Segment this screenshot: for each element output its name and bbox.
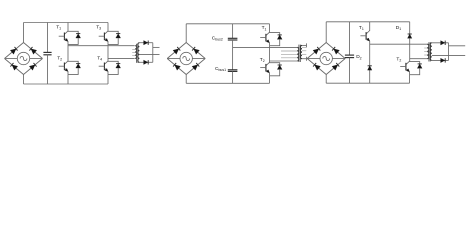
wire circuit3 bottom rail	[326, 82, 409, 84]
wire T1c3 collector drop	[369, 22, 371, 31]
wire node A1 to primary top	[68, 45, 135, 47]
winding return turns TR3 primary	[424, 48, 427, 55]
wire center tap output circuit3	[432, 54, 465, 56]
wire secondary2 bottom lead	[302, 58, 307, 60]
wire T3 collector drop	[107, 23, 109, 32]
wire cap3 branch lower	[349, 58, 351, 84]
bridge diode B3 upper-right	[332, 47, 339, 54]
wire Cbus1 branch lower	[232, 71, 234, 83]
wire leg2 mid	[269, 46, 271, 63]
wire bridge1 top stub	[23, 23, 25, 43]
wire T2c2 emitter drop	[269, 76, 271, 84]
wire circuit2 bottom rail	[186, 82, 269, 84]
wire bridge1 bottom stub	[23, 75, 25, 85]
capacitor Cbus1	[228, 70, 238, 72]
wire cap3 branch upper	[349, 22, 351, 55]
transistor T2	[59, 61, 68, 75]
antiparallel diode of T2 (circuit2)	[270, 63, 283, 76]
wire T2 emitter drop	[67, 74, 69, 84]
antiparallel diode of T4	[108, 61, 121, 74]
diode bridge B1 diamond	[5, 43, 43, 75]
bridge diode B1 lower-right	[29, 63, 36, 70]
AC source B3	[307, 52, 345, 64]
capacitor Cbus circuit3	[345, 55, 354, 58]
bridge diode B2 lower-left	[173, 63, 180, 70]
transistor T1	[59, 31, 68, 45]
wire secondary1 top line	[139, 42, 152, 44]
wire node B3 line	[410, 58, 428, 60]
transformer winding TR3 primary	[427, 44, 429, 59]
wire T4 emitter drop	[107, 74, 109, 84]
diode D2	[368, 66, 372, 70]
transformer winding TR1 primary	[135, 46, 137, 59]
wire output plus circuit3	[449, 45, 466, 47]
diode bridge B3 diamond	[307, 43, 345, 75]
wire circuit1 top rail	[24, 22, 109, 24]
transistor T2 (circuit3)	[400, 61, 409, 74]
wire D1 branch lower	[409, 38, 411, 61]
bridge diode B3 lower-right	[332, 63, 339, 70]
wire bridge2 bottom stub	[185, 75, 187, 84]
AC source B2	[167, 52, 205, 64]
transistor T3	[99, 31, 108, 45]
wire cap1 branch lower	[47, 55, 49, 84]
bridge diode B2 upper-right	[192, 47, 199, 54]
wire secondary2 top lead	[302, 44, 307, 46]
antiparallel diode of T2 (circuit3)	[410, 62, 423, 75]
winding return turns TR2 primary	[281, 51, 297, 58]
transistor T4	[99, 61, 108, 75]
antiparallel diode of T3	[108, 31, 121, 44]
wire secondary1 bottom line	[139, 61, 152, 63]
diode D1	[408, 34, 412, 38]
transistor T1 (circuit3)	[360, 31, 369, 45]
wire center tap output circuit1	[139, 54, 159, 56]
wire circuit1 bottom rail	[24, 83, 109, 85]
capacitor Cbus circuit1	[43, 52, 51, 54]
antiparallel diode of T1	[68, 31, 81, 44]
antiparallel diode of T1 (circuit2)	[270, 33, 283, 46]
wire circuit3 top rail	[326, 21, 410, 23]
wire secondary3 bottom line	[432, 59, 449, 61]
bridge diode B2 lower-right	[192, 63, 199, 70]
transformer winding TR2 secondary	[300, 45, 302, 58]
wire T2c3 emitter drop	[409, 75, 411, 84]
wire cap midpoint to primary top	[233, 46, 297, 48]
wire cap midpoint branch	[232, 40, 234, 70]
wire left leg mid	[67, 44, 69, 61]
output rectifier diode circuit3 top	[441, 41, 446, 45]
transformer winding TR1 secondary	[138, 43, 140, 63]
transistor T1 (circuit2)	[260, 32, 269, 46]
winding return turns TR1 primary	[132, 50, 135, 56]
transformer TR1 core	[136, 44, 138, 63]
wire D1 branch upper	[409, 22, 411, 34]
wire output bus circuit3	[448, 43, 450, 61]
wire bridge3 top stub	[325, 22, 327, 43]
wire circuit2 top rail	[186, 23, 269, 25]
wire D2 branch	[369, 44, 371, 83]
antiparallel diode of T2	[68, 61, 81, 74]
diode bridge B2 diamond	[167, 43, 205, 75]
capacitor Cbus2	[228, 38, 238, 40]
transformer winding TR3 secondary	[430, 43, 432, 61]
bridge diode B2 upper-left	[173, 47, 180, 54]
output rectifier diode circuit3 bottom	[441, 58, 446, 62]
transistor T2 (circuit2)	[260, 62, 269, 76]
wire output bus circuit1	[152, 43, 154, 63]
wire Cbus2 branch upper	[232, 24, 234, 39]
wire bridge2 top stub	[185, 24, 187, 43]
wire node A3 line	[370, 43, 428, 45]
output rectifier diode circuit1 top	[144, 41, 149, 45]
bridge diode B1 lower-left	[10, 63, 17, 70]
wire output plus circuit1	[153, 46, 160, 48]
winding return turns TR2 secondary	[302, 47, 306, 54]
bridge diode B1 upper-right	[29, 47, 36, 54]
output rectifier diode circuit1 bottom	[144, 60, 149, 64]
wire bridge3 bottom stub	[325, 75, 327, 84]
wire right leg mid	[107, 44, 109, 61]
bridge diode B3 lower-left	[313, 63, 320, 70]
bridge diode B1 upper-left	[10, 47, 17, 54]
transformer TR3 core	[428, 42, 430, 61]
wire T1c2 collector drop	[269, 24, 271, 33]
wire leg midpoint to primary bottom	[270, 60, 298, 62]
wire secondary3 top line	[432, 42, 449, 44]
wire T1 collector drop	[67, 23, 69, 32]
bridge diode B3 upper-left	[313, 47, 320, 54]
AC source B1	[5, 52, 43, 64]
wire cap1 branch upper	[47, 23, 49, 53]
transformer TR2 core	[298, 45, 300, 62]
wire node B1 to primary bottom	[108, 57, 135, 59]
transformer winding TR2 primary	[297, 47, 299, 61]
